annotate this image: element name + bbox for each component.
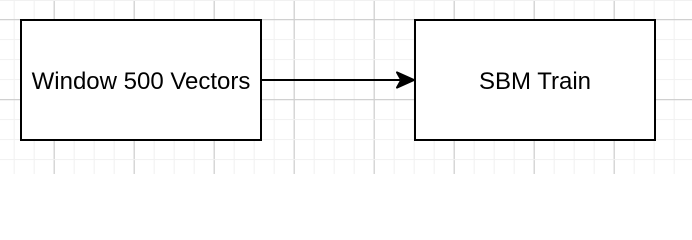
svg-text:Window 500 Vectors: Window 500 Vectors [32, 68, 251, 95]
wire: connector arrow from Window 500 Vectors to SBM Train [262, 72, 414, 87]
node: SBM Train box [415, 20, 655, 140]
arrowhead [397, 72, 414, 87]
svg-text:SBM Train: SBM Train [479, 68, 591, 95]
grid (decorative) [0, 0, 692, 174]
node: Window 500 Vectors box [21, 20, 261, 140]
